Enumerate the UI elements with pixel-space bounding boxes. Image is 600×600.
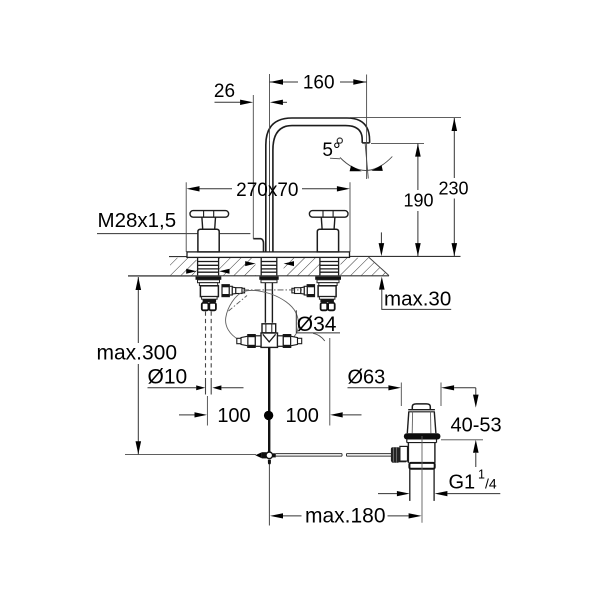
spout aerator dot	[337, 138, 342, 143]
tee funnel V	[263, 334, 276, 342]
extension lines 063	[400, 383, 402, 407]
hole arrow left-right	[219, 269, 229, 274]
svg-text:max.30: max.30	[384, 288, 451, 311]
pop-up rod upper	[268, 347, 270, 452]
rod lower thin line	[268, 465, 270, 526]
left handle stem	[201, 217, 204, 229]
right valve flange nut	[315, 276, 341, 279]
drain bottom ring	[409, 463, 434, 469]
max300 top ref line	[128, 275, 196, 277]
hose centerline dash-dot	[243, 289, 302, 291]
dimension 160	[270, 81, 367, 83]
drain plug flange	[408, 409, 435, 411]
lever nub	[273, 453, 276, 457]
lever ball	[266, 452, 273, 459]
svg-text:1: 1	[478, 468, 485, 482]
extension line 26 left	[252, 95, 254, 239]
svg-text:160: 160	[303, 73, 335, 94]
arc arrow left	[350, 166, 362, 172]
rod lower drop	[268, 460, 271, 465]
5 deg leader	[330, 157, 340, 160]
dimension 190	[417, 144, 419, 257]
svg-text:100: 100	[217, 405, 250, 427]
extension line 190 top	[371, 142, 424, 144]
svg-text:G1: G1	[449, 472, 476, 494]
right handle stem	[320, 217, 323, 229]
lever coupling white piece	[399, 449, 405, 461]
right valve side connector	[292, 285, 315, 297]
arc arrow right	[371, 165, 383, 171]
extension line 270x70 right	[349, 182, 351, 252]
lever rod right segment	[347, 454, 392, 457]
drain plug body	[407, 412, 409, 433]
center down tube	[264, 283, 266, 323]
right handle base	[317, 229, 338, 252]
right valve feet	[321, 303, 328, 310]
left valve castellated nut	[198, 280, 220, 283]
drain centerline	[421, 436, 423, 523]
dimension max300	[137, 277, 139, 454]
countertop hatch segment 3	[284, 258, 320, 276]
lever rod left segment	[276, 454, 342, 457]
right valve lower band	[320, 299, 334, 302]
left valve side connector	[222, 285, 245, 297]
center flange nut	[259, 276, 278, 279]
tee right connector	[278, 335, 302, 348]
svg-text:M28x1,5: M28x1,5	[98, 209, 177, 232]
dimension max180	[270, 513, 283, 518]
extension line 26/160 shared	[269, 74, 271, 141]
extension line 230 top	[350, 117, 461, 119]
right valve castellated nut	[317, 280, 339, 283]
lever clamp arrow	[255, 452, 261, 458]
G leader	[378, 493, 397, 495]
svg-text:270x70: 270x70	[236, 180, 298, 201]
extension line 270x70 left	[185, 182, 187, 252]
extension line 100 right	[329, 338, 331, 426]
lever clamp block	[262, 452, 267, 458]
drain side port knurled nut	[391, 447, 400, 462]
dimension 26	[215, 101, 288, 103]
left valve lower band	[203, 299, 217, 302]
svg-text:Ø34: Ø34	[297, 313, 337, 336]
max300 bottom ref line	[125, 454, 256, 456]
left handle T-bar	[190, 211, 229, 218]
svg-text:Ø10: Ø10	[148, 366, 188, 389]
left valve feet	[202, 303, 209, 310]
extension line 100 left	[206, 396, 208, 426]
dimension 034 box	[295, 310, 297, 333]
hole arrow left-left	[186, 269, 196, 274]
center shank through counter	[261, 258, 277, 276]
tee hex nut	[262, 324, 276, 333]
svg-text:230: 230	[438, 179, 468, 199]
hole arrow center-left	[245, 261, 255, 266]
M28 leader line	[97, 233, 250, 235]
svg-text:100: 100	[286, 405, 319, 427]
svg-text:190: 190	[403, 191, 433, 211]
left valve body	[200, 286, 218, 297]
left valve lower nut	[202, 297, 218, 300]
lever coupling knurled nut	[392, 448, 400, 463]
svg-text:40-53: 40-53	[451, 415, 502, 437]
dimension 270x70	[199, 188, 337, 190]
tee left connector	[237, 335, 261, 348]
drain O-ring seal	[404, 433, 441, 439]
right handle T-bar	[309, 211, 348, 218]
right valve band	[319, 283, 337, 286]
deck plate	[187, 252, 350, 258]
spout inner edge line	[269, 141, 271, 252]
drain neck lip	[406, 440, 408, 443]
dimension 100 100	[179, 414, 195, 416]
drain body	[407, 443, 409, 463]
max30 upper arrow	[380, 232, 382, 243]
drain plug cap	[412, 404, 430, 410]
spout	[266, 118, 370, 252]
center castellated nut	[261, 280, 277, 283]
drain side port body	[400, 446, 408, 461]
extension line 160 right / 5 deg tick	[366, 75, 368, 180]
svg-text:max.180: max.180	[305, 505, 386, 528]
left valve flange nut	[196, 276, 222, 279]
5 deg arc	[340, 157, 392, 171]
svg-text:Ø63: Ø63	[348, 367, 386, 389]
countertop bottom line	[128, 275, 389, 277]
5 deg slanted line	[365, 143, 368, 179]
svg-text:/4: /4	[485, 476, 497, 492]
countertop hatch left segment	[170, 258, 197, 276]
countertop top line right	[350, 255, 461, 257]
left shank through counter	[198, 258, 219, 276]
hole arrow center-right	[284, 261, 294, 266]
dimension 230	[453, 118, 455, 256]
left handle base	[198, 229, 219, 252]
countertop hatch segment 2	[219, 258, 256, 276]
tee body	[261, 333, 278, 347]
dashed hoses below left valve	[206, 312, 212, 379]
dimension dot 100/100	[264, 411, 273, 420]
right valve body	[318, 286, 336, 297]
svg-text:26: 26	[214, 81, 235, 102]
countertop hatch segment 4	[341, 258, 389, 276]
drain tailpipe	[409, 469, 411, 501]
right valve lower nut	[319, 297, 335, 300]
hose loop	[226, 290, 299, 341]
hose inner dash-dot	[229, 296, 248, 312]
dimension 40-53	[475, 388, 477, 395]
spout base step	[253, 239, 263, 252]
countertop cut edge	[369, 257, 390, 276]
left valve band	[199, 283, 217, 286]
countertop top line left	[169, 256, 188, 258]
right shank through counter	[320, 258, 339, 276]
max30 lower arrow and label	[379, 277, 385, 290]
svg-text:max.300: max.300	[97, 342, 178, 365]
